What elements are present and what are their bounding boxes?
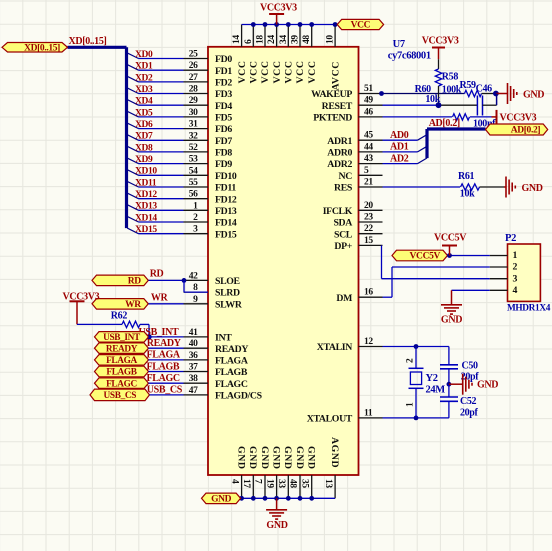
pin FD0 (pin 25)	[184, 58, 209, 60]
ground symbol (P2)	[451, 290, 453, 305]
svg-text:WR: WR	[151, 293, 169, 304]
ground (crystal mid node)	[449, 383, 462, 385]
pin P2.3	[490, 278, 508, 280]
pin GND (pin 35)	[311, 475, 313, 498]
svg-text:AVCC: AVCC	[330, 61, 341, 90]
svg-text:46: 46	[364, 107, 373, 117]
wire net XD4	[139, 104, 184, 106]
svg-text:VCC: VCC	[295, 60, 306, 83]
svg-text:13: 13	[323, 479, 333, 488]
wire PKTEND pin46	[383, 116, 453, 118]
svg-text:GND: GND	[266, 520, 287, 531]
svg-text:VCC: VCC	[284, 60, 295, 83]
junction	[251, 22, 256, 27]
junction	[414, 344, 419, 349]
svg-text:AD1: AD1	[390, 142, 409, 153]
svg-text:SLOE: SLOE	[215, 276, 241, 287]
bus entry XD10	[127, 170, 138, 176]
svg-text:USB_CS: USB_CS	[104, 391, 137, 401]
pin VCC (pin 18)	[264, 25, 266, 47]
bus XD[0..15] vertical	[125, 47, 128, 228]
svg-text:1: 1	[513, 250, 518, 261]
svg-text:VCC5V: VCC5V	[410, 252, 441, 262]
pin FD11 (pin 55)	[184, 186, 209, 188]
wire net XD0	[139, 58, 184, 60]
wire USB_INT	[149, 336, 184, 338]
svg-text:3: 3	[513, 273, 518, 284]
svg-text:17: 17	[241, 479, 251, 488]
wire net XD11	[139, 186, 184, 188]
svg-text:USB_INT: USB_INT	[103, 333, 141, 343]
svg-text:FD11: FD11	[215, 183, 236, 194]
svg-text:FLAGB: FLAGB	[147, 361, 180, 372]
svg-text:ADR0: ADR0	[327, 148, 352, 159]
svg-text:IFCLK: IFCLK	[323, 206, 353, 217]
svg-text:44: 44	[364, 142, 373, 152]
svg-text:28: 28	[189, 85, 198, 95]
svg-text:AD[0.2]: AD[0.2]	[429, 118, 460, 129]
wire DM to P2 pin2	[383, 296, 393, 298]
pin FD13 (pin 1)	[184, 209, 209, 211]
wire WAKEUP pin51	[383, 93, 465, 95]
port VCC	[337, 19, 383, 29]
svg-text:XD2: XD2	[135, 73, 153, 83]
svg-text:RES: RES	[334, 183, 353, 194]
svg-text:SLWR: SLWR	[215, 299, 243, 310]
svg-text:GND: GND	[306, 446, 317, 470]
svg-text:1: 1	[193, 201, 198, 211]
svg-text:33: 33	[276, 479, 286, 488]
wire GND rail	[241, 497, 336, 499]
pin P2.1	[490, 255, 508, 257]
svg-text:2: 2	[193, 213, 198, 223]
port WR	[92, 299, 148, 310]
svg-text:PKTEND: PKTEND	[313, 113, 352, 124]
svg-text:WAKEUP: WAKEUP	[311, 89, 352, 100]
svg-text:R59: R59	[460, 80, 477, 91]
junction	[274, 22, 279, 27]
wire to SLRD	[183, 280, 185, 292]
resistor R59 body on WAKEUP line	[465, 90, 482, 96]
pin GND (pin 33)	[287, 475, 289, 498]
svg-text:XD7: XD7	[135, 132, 153, 142]
wire net XD7	[139, 139, 184, 141]
bus entry XD6	[127, 123, 138, 129]
wire AD2	[383, 163, 418, 165]
pin FD8 (pin 52)	[184, 151, 209, 153]
svg-text:XD[0..15]: XD[0..15]	[24, 44, 60, 54]
svg-text:48: 48	[302, 35, 312, 44]
svg-text:47: 47	[189, 386, 198, 396]
svg-text:ADR2: ADR2	[327, 159, 352, 170]
svg-text:XTALIN: XTALIN	[317, 342, 353, 353]
pin 45 stub	[359, 139, 383, 141]
svg-text:XD6: XD6	[135, 120, 153, 130]
svg-text:XD3: XD3	[135, 85, 153, 95]
svg-text:XD15: XD15	[135, 225, 157, 235]
pin 47 stub	[184, 394, 209, 396]
svg-text:FLAGC: FLAGC	[147, 373, 180, 384]
svg-text:XD0: XD0	[135, 50, 153, 60]
pin GND (pin 17)	[252, 475, 254, 498]
wire net XD15	[139, 233, 184, 235]
svg-text:FD15: FD15	[215, 229, 237, 240]
port XD[0..15]	[2, 43, 68, 53]
svg-text:FD7: FD7	[215, 136, 232, 147]
resistor body on PKTEND line	[453, 114, 470, 120]
svg-text:AD2: AD2	[390, 153, 409, 164]
svg-text:READY: READY	[147, 338, 182, 349]
svg-text:24: 24	[267, 35, 277, 44]
wire R62 to INT	[140, 323, 149, 325]
svg-text:14: 14	[232, 35, 242, 44]
svg-text:54: 54	[189, 166, 198, 176]
pin GND (pin 4)	[241, 475, 243, 498]
pin 36 stub	[184, 359, 209, 361]
junction	[182, 278, 187, 283]
svg-text:29: 29	[189, 96, 198, 106]
junction	[263, 22, 268, 27]
wire net XD9	[139, 163, 184, 165]
svg-text:GND: GND	[523, 89, 544, 100]
svg-text:GND: GND	[270, 446, 281, 470]
svg-text:FLAGB: FLAGB	[106, 368, 136, 378]
svg-text:12: 12	[364, 337, 373, 347]
svg-text:21: 21	[364, 178, 373, 188]
pin 16 stub	[359, 296, 383, 298]
bus entry XD4	[127, 100, 138, 106]
pin 37 stub	[184, 371, 209, 373]
wire net XD6	[139, 128, 184, 130]
bus entry XD9	[127, 158, 138, 164]
svg-text:1: 1	[406, 402, 416, 407]
pin VCC (pin 24)	[276, 25, 278, 47]
svg-text:AGND: AGND	[329, 437, 340, 468]
svg-text:C46: C46	[476, 84, 493, 95]
wire RESET pin49	[383, 104, 439, 106]
svg-text:GND: GND	[282, 446, 293, 470]
svg-text:VCC: VCC	[272, 60, 283, 83]
port USB_CS	[90, 389, 150, 401]
wire RES pin21	[383, 186, 461, 188]
svg-text:R58: R58	[442, 72, 459, 83]
svg-text:MHDR1X4: MHDR1X4	[507, 304, 551, 314]
wire DP+ to P2 pin3	[381, 245, 383, 278]
bus entry XD11	[127, 181, 138, 187]
bus entry XD5	[127, 111, 138, 117]
svg-text:cy7c68001: cy7c68001	[388, 51, 431, 62]
svg-text:SCL: SCL	[334, 229, 353, 240]
bus entry XD7	[127, 135, 138, 141]
svg-text:GND: GND	[522, 183, 543, 194]
svg-text:GND: GND	[259, 446, 270, 470]
svg-text:VCC: VCC	[260, 60, 271, 83]
bus AD vertical	[425, 129, 428, 158]
junction	[263, 496, 268, 501]
wire XTALIN pin12	[383, 346, 449, 348]
svg-text:30: 30	[189, 108, 198, 118]
svg-text:WR: WR	[125, 300, 141, 310]
svg-text:40: 40	[189, 339, 198, 349]
svg-text:R62: R62	[111, 311, 128, 322]
pin FD7 (pin 32)	[184, 139, 209, 141]
pin 21 stub	[359, 186, 383, 188]
svg-text:P2: P2	[505, 233, 516, 244]
svg-text:FLAGC: FLAGC	[106, 379, 137, 389]
wire WR to SLWR	[149, 303, 184, 305]
svg-text:FD2: FD2	[215, 78, 232, 89]
svg-text:2: 2	[406, 358, 416, 363]
junction R58/RESET	[436, 102, 442, 108]
pin AGND (pin 13)	[334, 475, 336, 498]
svg-text:XD14: XD14	[135, 213, 157, 223]
svg-text:FD8: FD8	[215, 148, 232, 159]
wire to R62	[77, 323, 122, 325]
svg-text:52: 52	[189, 143, 198, 153]
bus entry AD1	[418, 146, 428, 152]
pin 22 stub	[359, 233, 383, 235]
wire net XD1	[139, 69, 184, 71]
pin P2.4	[490, 289, 508, 291]
svg-text:34: 34	[279, 35, 289, 44]
wire USB_CS	[150, 394, 184, 396]
svg-text:6: 6	[244, 39, 254, 44]
svg-text:VCC: VCC	[351, 21, 371, 31]
bus entry XD14	[127, 216, 138, 222]
pin 5 stub	[359, 174, 383, 176]
port GND	[202, 493, 241, 504]
svg-text:5: 5	[364, 166, 369, 176]
junction	[239, 496, 244, 501]
svg-text:FLAGA: FLAGA	[106, 356, 137, 366]
svg-text:38: 38	[189, 374, 198, 384]
svg-text:16: 16	[364, 288, 373, 298]
pin 20 stub	[359, 209, 383, 211]
junction	[286, 496, 291, 501]
crystal Y2	[415, 347, 417, 369]
svg-text:XD1: XD1	[135, 62, 153, 72]
pin VCC (pin 34)	[287, 25, 289, 47]
junction pin51	[379, 91, 384, 96]
pin 43 stub	[359, 163, 383, 165]
junction	[286, 22, 291, 27]
svg-text:GND: GND	[477, 380, 498, 391]
svg-text:XD8: XD8	[135, 143, 153, 153]
svg-text:4: 4	[513, 285, 518, 296]
svg-text:3: 3	[193, 225, 198, 235]
bus entry XD0	[127, 53, 138, 59]
pin 8 stub	[184, 291, 209, 293]
bus entry AD0	[418, 135, 428, 141]
svg-text:FLAGC: FLAGC	[215, 379, 248, 390]
resistor R58 pull-up	[438, 59, 440, 69]
pin 46 stub	[359, 116, 383, 118]
port FLAGB	[95, 366, 149, 377]
pin VCC (pin 39)	[299, 25, 301, 47]
svg-text:GND: GND	[235, 446, 246, 470]
junction	[251, 496, 256, 501]
svg-text:18: 18	[256, 35, 266, 44]
svg-text:55: 55	[189, 178, 198, 188]
pin FD3 (pin 28)	[184, 93, 209, 95]
wire net XD3	[139, 93, 184, 95]
pin 23 stub	[359, 221, 383, 223]
svg-text:XD12: XD12	[135, 190, 157, 200]
pin FD15 (pin 3)	[184, 233, 209, 235]
port VCC5V	[392, 250, 448, 261]
svg-text:INT: INT	[215, 333, 232, 344]
svg-text:56: 56	[189, 190, 198, 200]
svg-text:AD0: AD0	[390, 130, 409, 141]
svg-text:9: 9	[193, 295, 198, 305]
svg-text:35: 35	[299, 479, 309, 488]
pin FD4 (pin 29)	[184, 104, 209, 106]
wire AD1	[383, 151, 418, 153]
svg-text:XD13: XD13	[135, 202, 157, 212]
svg-text:53: 53	[189, 155, 198, 165]
svg-text:36: 36	[189, 351, 198, 361]
bus entry XD2	[127, 76, 138, 82]
power symbol VCC5V	[449, 246, 451, 256]
svg-text:26: 26	[189, 61, 198, 71]
svg-text:READY: READY	[215, 344, 248, 355]
pin FD6 (pin 31)	[184, 128, 209, 130]
svg-text:51: 51	[364, 84, 373, 94]
port READY	[95, 343, 149, 354]
junction AVCC	[333, 22, 338, 27]
pin 42 stub	[184, 279, 209, 281]
bus entry XD3	[127, 88, 138, 94]
svg-text:VCC3V3: VCC3V3	[500, 113, 537, 124]
pin 12 stub	[359, 346, 383, 348]
wire C46 to GND node	[483, 104, 497, 106]
port USB_INT	[95, 332, 149, 343]
svg-text:48: 48	[288, 479, 298, 488]
pin 9 stub	[184, 303, 209, 305]
power symbol VCC3V3 (right)	[492, 116, 497, 118]
wire net XD14	[139, 221, 184, 223]
svg-text:USB_CS: USB_CS	[147, 385, 183, 396]
junction USB_INT	[146, 334, 152, 340]
svg-text:XD5: XD5	[135, 108, 153, 118]
pin FD9 (pin 53)	[184, 163, 209, 165]
port RD	[92, 275, 148, 286]
pin 49 stub	[359, 104, 383, 106]
svg-text:GND: GND	[294, 446, 305, 470]
junction VCC5V	[447, 253, 452, 258]
svg-text:FD4: FD4	[215, 101, 232, 112]
wire net XD8	[139, 151, 184, 153]
svg-text:10: 10	[326, 35, 336, 44]
svg-text:C50: C50	[462, 361, 479, 372]
svg-text:RD: RD	[150, 269, 164, 280]
pin VCC (pin 6)	[252, 25, 254, 47]
pin 44 stub	[359, 151, 383, 153]
svg-text:VCC5V: VCC5V	[434, 233, 467, 244]
svg-text:24M: 24M	[426, 385, 446, 396]
svg-text:31: 31	[189, 120, 198, 130]
junction	[309, 496, 314, 501]
wire FLAGC	[149, 382, 184, 384]
pin 11 stub	[359, 417, 383, 419]
svg-text:XD9: XD9	[135, 155, 153, 165]
svg-text:XD11: XD11	[135, 178, 157, 188]
svg-text:FD6: FD6	[215, 124, 232, 135]
wire FLAGA	[149, 359, 184, 361]
bus AD horizontal	[427, 127, 486, 130]
svg-text:41: 41	[189, 328, 198, 338]
svg-text:FLAGA: FLAGA	[147, 350, 181, 361]
junction	[298, 22, 303, 27]
junction	[274, 496, 279, 501]
ground GND (right of R61)	[504, 186, 506, 188]
port FLAGC	[95, 378, 149, 389]
pin FD1 (pin 26)	[184, 69, 209, 71]
junction C50/C52	[447, 382, 452, 387]
power symbol VCC3V3 (above R58)	[438, 48, 440, 60]
svg-text:FLAGD/CS: FLAGD/CS	[215, 391, 263, 402]
ground symbol (bottom)	[276, 498, 278, 510]
wire to VCC3V3 bar	[470, 116, 492, 118]
svg-text:VCC3V3: VCC3V3	[260, 3, 297, 14]
svg-text:FLAGA: FLAGA	[215, 356, 248, 367]
svg-text:GND: GND	[441, 315, 462, 326]
svg-text:7: 7	[253, 479, 263, 484]
svg-text:15: 15	[364, 236, 373, 246]
svg-text:DM: DM	[336, 293, 352, 304]
svg-text:C52: C52	[460, 396, 477, 407]
svg-text:ADR1: ADR1	[327, 136, 352, 147]
bus entry AD2	[418, 158, 428, 164]
wire AD0	[383, 139, 418, 141]
pin 41 stub	[184, 336, 209, 338]
svg-text:VCC: VCC	[237, 60, 248, 83]
connector P2 body	[508, 244, 541, 301]
svg-text:FD12: FD12	[215, 194, 237, 205]
pin FD5 (pin 30)	[184, 116, 209, 118]
port FLAGA	[95, 355, 149, 366]
svg-text:Y2: Y2	[426, 373, 438, 384]
capacitor C50	[448, 347, 450, 365]
svg-text:XD[0..15]: XD[0..15]	[69, 36, 107, 47]
svg-text:43: 43	[364, 154, 373, 164]
svg-text:37: 37	[189, 363, 198, 373]
svg-text:32: 32	[189, 131, 198, 141]
svg-text:SLRD: SLRD	[215, 288, 240, 299]
bus entry XD15	[127, 228, 138, 234]
bus entry XD8	[127, 146, 138, 152]
pin 15 stub	[359, 244, 383, 246]
svg-text:VCC3V3: VCC3V3	[422, 36, 459, 47]
svg-text:2: 2	[513, 262, 518, 273]
svg-text:19: 19	[264, 479, 274, 488]
pin GND (pin 7)	[264, 475, 266, 498]
svg-text:RESET: RESET	[322, 101, 353, 112]
svg-text:4: 4	[229, 479, 239, 484]
bus XD[0..15] horizontal	[68, 46, 127, 49]
svg-text:20: 20	[364, 201, 373, 211]
svg-text:DP+: DP+	[334, 241, 352, 252]
pin FD2 (pin 27)	[184, 81, 209, 83]
pin 40 stub	[184, 347, 209, 349]
svg-text:READY: READY	[106, 344, 138, 354]
wire net XD12	[139, 198, 184, 200]
wire XTALOUT pin11	[383, 417, 449, 419]
junction	[298, 496, 303, 501]
wire VCC rail	[242, 24, 338, 26]
svg-text:VCC: VCC	[307, 60, 318, 83]
power symbol VCC3V3 (top)	[276, 14, 278, 25]
